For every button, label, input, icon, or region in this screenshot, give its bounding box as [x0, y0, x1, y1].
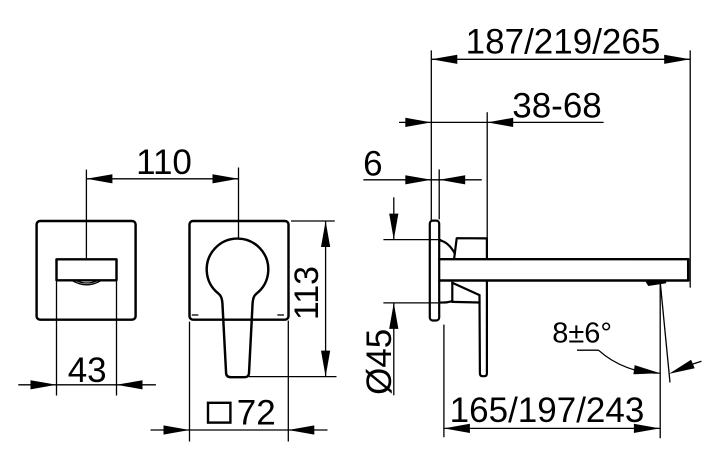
svg-text:Ø45: Ø45	[360, 329, 399, 395]
svg-text:72: 72	[237, 394, 276, 433]
svg-text:43: 43	[68, 351, 107, 390]
svg-text:165/197/243: 165/197/243	[450, 391, 645, 430]
svg-text:6: 6	[363, 144, 382, 183]
svg-text:38-68: 38-68	[512, 87, 602, 126]
svg-text:113: 113	[288, 266, 326, 320]
svg-text:110: 110	[136, 143, 192, 182]
svg-text:187/219/265: 187/219/265	[466, 23, 661, 62]
svg-text:8±6°: 8±6°	[552, 317, 612, 349]
